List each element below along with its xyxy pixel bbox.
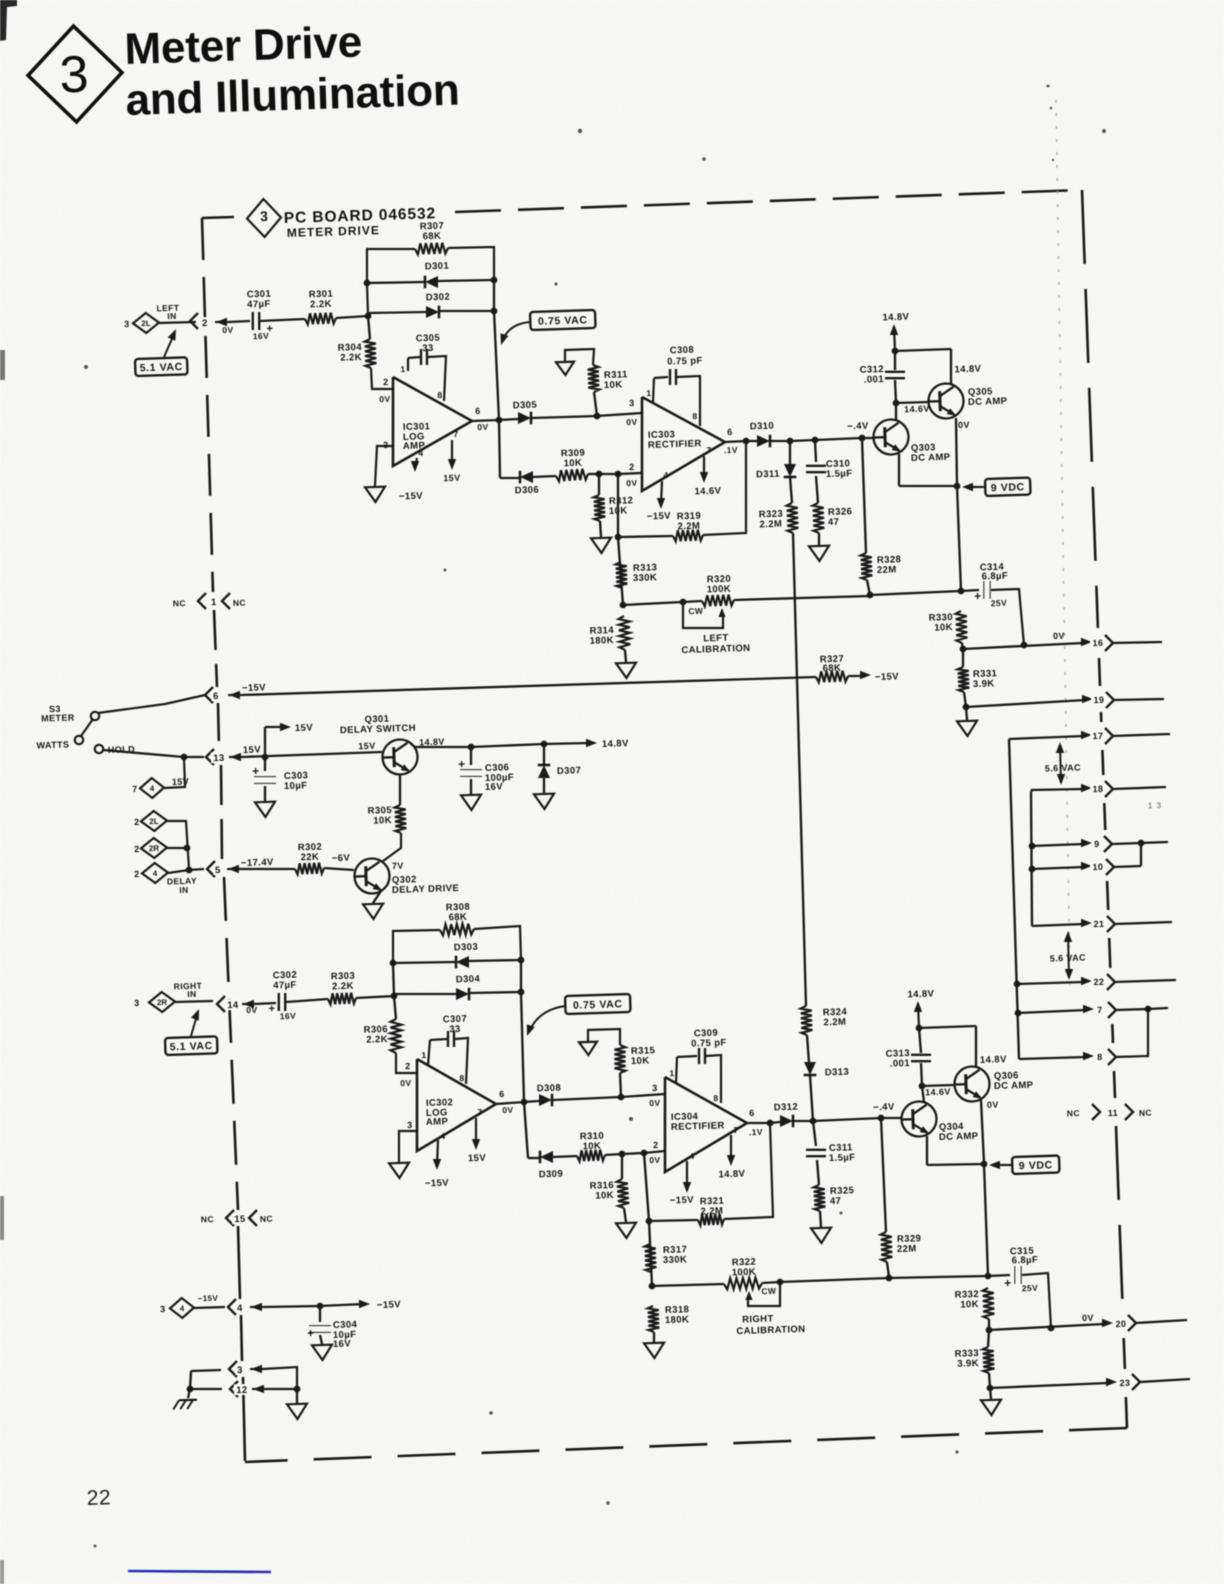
- wire: [618, 536, 673, 537]
- R301 labels: [309, 289, 334, 301]
- svg-text:3: 3: [160, 1304, 166, 1314]
- wire: [644, 1151, 665, 1153]
- diode D304: [456, 988, 469, 1001]
- node RIGHT IN label: [174, 981, 203, 992]
- wire: [703, 441, 746, 535]
- svg-text:14.8V: 14.8V: [954, 364, 981, 376]
- svg-text:0V: 0V: [649, 1098, 661, 1108]
- diode D307: [538, 765, 551, 778]
- transistor Q306: [954, 1066, 990, 1103]
- R331 labels: [973, 668, 998, 680]
- svg-text:−15V: −15V: [647, 511, 672, 523]
- wire: [895, 349, 951, 351]
- junction: [184, 845, 191, 852]
- svg-text:CW: CW: [688, 606, 704, 616]
- svg-text:68K: 68K: [448, 912, 467, 924]
- junction: [986, 1327, 993, 1334]
- wire: [500, 477, 519, 479]
- svg-text:68K: 68K: [822, 663, 841, 675]
- junction: [954, 483, 961, 490]
- op-amp IC303 RECTIFIER: [642, 397, 725, 491]
- R332 labels: [954, 1289, 979, 1301]
- junction: [317, 1303, 324, 1310]
- connector 2L (delay): [141, 811, 168, 832]
- svg-text:0.75 pF: 0.75 pF: [691, 1037, 727, 1049]
- pin 1 connector NC: [173, 598, 186, 608]
- wire: [899, 485, 957, 487]
- wire: [617, 474, 619, 537]
- pin 7 connector: [1083, 1005, 1094, 1013]
- wire: [961, 590, 979, 591]
- R330 labels: [928, 612, 953, 624]
- wire: [469, 960, 521, 961]
- ground: [363, 904, 383, 920]
- svg-text:2: 2: [202, 318, 208, 329]
- scan crease dotted line: [1056, 100, 1070, 985]
- svg-text:+: +: [252, 764, 260, 778]
- pin 2 connector: [190, 313, 198, 329]
- svg-text:6: 6: [475, 406, 481, 416]
- svg-text:3: 3: [124, 319, 130, 329]
- R306 labels: [363, 1024, 388, 1036]
- IC303 labels: [648, 429, 676, 441]
- svg-text:3.9K: 3.9K: [957, 1358, 979, 1370]
- R318 labels: [665, 1304, 690, 1316]
- resistor R323: [787, 503, 799, 533]
- Q303 labels: [911, 442, 936, 454]
- label 0V emitter Q305: [958, 420, 970, 430]
- wire: [956, 418, 957, 486]
- C313 labels: [885, 1048, 910, 1060]
- svg-text:7V: 7V: [392, 861, 404, 871]
- svg-text:14.8V: 14.8V: [419, 737, 445, 748]
- wire: [1032, 924, 1084, 926]
- resistor R303: [328, 993, 356, 1005]
- svg-text:6: 6: [499, 1089, 505, 1099]
- boxed label 9 VDC right: [1012, 1156, 1060, 1174]
- capacitor C310: [806, 466, 826, 472]
- Q304 labels: [939, 1121, 964, 1133]
- pc board border top-left segment: [202, 217, 234, 218]
- ground: [365, 487, 385, 503]
- wire: [240, 868, 295, 870]
- IC302 pin 4 stub: [437, 1140, 438, 1166]
- wire: [621, 1154, 623, 1179]
- R324 labels: [823, 1007, 848, 1019]
- diode D309: [540, 1151, 553, 1164]
- wire: [1116, 1009, 1148, 1057]
- boxed label 0.75 VAC left: [530, 310, 596, 330]
- capacitor C311: [806, 1150, 826, 1156]
- wire: [622, 1153, 644, 1154]
- junction: [767, 1120, 774, 1127]
- junction: [615, 534, 622, 541]
- svg-text:2.2K: 2.2K: [340, 352, 362, 364]
- junction: [1029, 866, 1036, 873]
- wire: [748, 1282, 780, 1306]
- wire: [264, 727, 266, 757]
- wire: [588, 1029, 620, 1045]
- svg-text:−6V: −6V: [332, 853, 351, 865]
- svg-text:20: 20: [1115, 1319, 1126, 1329]
- svg-text:3.9K: 3.9K: [973, 678, 995, 690]
- capacitor C301: [253, 312, 259, 330]
- wire: [520, 960, 522, 992]
- pin 16 connector: [1081, 638, 1092, 646]
- resistor R330: [956, 611, 968, 643]
- wire: [438, 280, 494, 281]
- wire: [649, 1221, 652, 1286]
- svg-text:10: 10: [1092, 862, 1103, 872]
- border diamond 3: [246, 198, 281, 237]
- svg-text:4: 4: [418, 448, 423, 458]
- svg-text:D302: D302: [426, 292, 451, 304]
- svg-text:14: 14: [227, 1000, 239, 1011]
- junction: [886, 1275, 893, 1282]
- svg-text:.001: .001: [890, 1058, 911, 1070]
- boxed label 0.75 VAC right: [565, 994, 631, 1014]
- wire: [1140, 1379, 1190, 1382]
- wire: [521, 992, 524, 1102]
- svg-text:16V: 16V: [253, 331, 270, 342]
- wire: [618, 537, 623, 605]
- svg-text:2L: 2L: [141, 319, 151, 328]
- svg-text:3: 3: [629, 398, 635, 408]
- IC304 labels: [671, 1111, 699, 1123]
- svg-text:2: 2: [134, 817, 140, 827]
- capacitor C309: [699, 1048, 705, 1064]
- wire: [533, 476, 556, 477]
- wire: [175, 1001, 213, 1002]
- svg-text:0V: 0V: [379, 394, 391, 404]
- wire: [677, 1056, 697, 1057]
- wire: [1022, 1273, 1051, 1328]
- D304 label: [456, 974, 481, 986]
- IC303 pin 4 stub: [661, 481, 662, 505]
- wire: [599, 473, 618, 475]
- wire: [770, 1122, 780, 1123]
- wire: [887, 1262, 889, 1277]
- svg-text:0.75 VAC: 0.75 VAC: [538, 314, 588, 328]
- svg-text:METER DRIVE: METER DRIVE: [287, 223, 380, 240]
- wire: [393, 963, 394, 996]
- R322 labels: [732, 1257, 757, 1269]
- DELAY IN label: [167, 876, 197, 887]
- resistor R311: [588, 365, 600, 392]
- svg-text:22K: 22K: [300, 852, 319, 864]
- diode D310: [757, 435, 770, 448]
- junction: [181, 754, 188, 761]
- junction: [365, 313, 372, 320]
- svg-text:33: 33: [449, 1024, 461, 1035]
- diode D302: [426, 306, 439, 319]
- svg-text:6.8µF: 6.8µF: [1012, 1255, 1039, 1267]
- wire: [889, 1276, 988, 1278]
- junction: [641, 1150, 648, 1157]
- capacitor C307: [448, 1031, 454, 1047]
- R304 labels: [337, 342, 362, 354]
- arrow to -15V: [848, 675, 864, 677]
- junction: [1048, 1325, 1055, 1332]
- D302 label: [426, 292, 451, 304]
- svg-text:15V: 15V: [358, 741, 376, 752]
- wire: [368, 316, 370, 339]
- label 14.6V: [904, 404, 930, 415]
- junction: [518, 957, 525, 964]
- wire: [394, 993, 456, 995]
- svg-text:16: 16: [1092, 638, 1103, 648]
- label 14.8V: [419, 737, 445, 748]
- svg-text:23: 23: [1119, 1378, 1130, 1388]
- D306 label: [515, 485, 540, 497]
- wire: [164, 758, 185, 788]
- wire: [159, 322, 196, 323]
- svg-text:6: 6: [749, 1108, 755, 1118]
- svg-text:1.5µF: 1.5µF: [829, 1152, 856, 1164]
- wire: [981, 1100, 984, 1163]
- wire: [396, 1053, 417, 1073]
- connector 2R (delay): [141, 838, 168, 859]
- wire: [652, 1284, 724, 1286]
- IC301 pin 2 label: [383, 377, 389, 387]
- wire: [625, 650, 626, 662]
- svg-text:C308: C308: [670, 345, 695, 357]
- wire: [653, 1332, 655, 1342]
- D310 label: [750, 421, 775, 433]
- pin 10 connector: [1081, 862, 1092, 870]
- junction: [987, 1385, 994, 1392]
- svg-text:1 3: 1 3: [1148, 801, 1162, 810]
- junction: [1021, 642, 1028, 649]
- svg-text:2.2K: 2.2K: [310, 299, 332, 311]
- wire: [989, 1373, 990, 1388]
- wire: [470, 992, 521, 993]
- wire: [989, 1324, 1104, 1330]
- svg-text:22: 22: [1093, 977, 1104, 987]
- svg-text:2: 2: [134, 844, 140, 854]
- svg-text:15: 15: [234, 1214, 246, 1225]
- wire: [1113, 642, 1162, 643]
- svg-text:D311: D311: [756, 469, 780, 481]
- wire: [600, 521, 601, 537]
- wire: [553, 1097, 621, 1100]
- resistor R318: [648, 1306, 660, 1332]
- wire: [605, 1154, 622, 1155]
- junction: [491, 277, 498, 284]
- svg-text:3: 3: [260, 208, 268, 224]
- wire: [167, 847, 187, 849]
- svg-text:0V: 0V: [246, 1005, 258, 1015]
- svg-text:DELAY DRIVE: DELAY DRIVE: [392, 883, 460, 896]
- svg-text:CALIBRATION: CALIBRATION: [736, 1324, 805, 1337]
- wire: [881, 1118, 886, 1232]
- svg-text:0V: 0V: [477, 422, 489, 432]
- R307 labels: [420, 221, 445, 233]
- wire: [496, 1102, 524, 1104]
- svg-text:18: 18: [1092, 784, 1103, 794]
- svg-text:1: 1: [400, 364, 405, 374]
- IC303 pin 2 label: [629, 462, 635, 472]
- IC302 pin 3: [407, 1120, 413, 1130]
- IC303 pin 3 label: [629, 398, 635, 408]
- wire: [991, 589, 1024, 645]
- wire: [440, 310, 494, 312]
- svg-text:2.2M: 2.2M: [823, 1017, 846, 1029]
- svg-text:8: 8: [713, 1093, 718, 1103]
- svg-text:−15V: −15V: [670, 1195, 695, 1207]
- Q306 labels: [994, 1070, 1019, 1082]
- svg-text:14.6V: 14.6V: [904, 404, 930, 415]
- wire: [324, 868, 354, 870]
- svg-text:16V: 16V: [485, 781, 504, 793]
- junction: [391, 993, 398, 1000]
- svg-text:IN: IN: [179, 885, 189, 895]
- R333 labels: [954, 1348, 979, 1360]
- boxed label 5.1 VAC: [135, 357, 188, 376]
- wire: [990, 1383, 1108, 1388]
- wire: [1136, 1320, 1187, 1323]
- wire: [1019, 1057, 1086, 1059]
- junction: [618, 1094, 625, 1101]
- svg-text:0V: 0V: [502, 1105, 514, 1115]
- wire: [319, 1306, 321, 1322]
- wire: [320, 1335, 322, 1344]
- wire: [383, 833, 401, 861]
- svg-text:3: 3: [237, 1365, 243, 1376]
- wire: [895, 380, 896, 403]
- IC301 pin 7 stub: [451, 440, 453, 466]
- ground: [534, 794, 554, 810]
- svg-text:+: +: [974, 589, 982, 603]
- resistor R306: [391, 1019, 402, 1053]
- svg-text:3: 3: [652, 1083, 658, 1093]
- svg-text:21: 21: [1093, 919, 1104, 929]
- wire: [254, 1003, 276, 1004]
- wire: [706, 1055, 721, 1103]
- ground: [981, 1400, 1001, 1416]
- svg-text:15V: 15V: [172, 776, 190, 787]
- svg-text:10K: 10K: [631, 1055, 650, 1067]
- D301 label: [425, 261, 450, 273]
- svg-text:5: 5: [215, 865, 221, 876]
- wire: [594, 392, 597, 416]
- resistor R325: [814, 1185, 826, 1211]
- wire: [168, 870, 189, 873]
- D312 label: [774, 1102, 799, 1114]
- capacitor C308: [670, 369, 676, 385]
- wire: [747, 1122, 770, 1124]
- IC303 pin 1 stub: [653, 378, 654, 403]
- pin 19 connector: [1082, 695, 1093, 703]
- wire: [399, 775, 401, 805]
- wire: [264, 1306, 320, 1307]
- junction: [963, 704, 970, 711]
- label -.4V right: [873, 1102, 895, 1114]
- pin 22 connector: [1081, 977, 1092, 985]
- transistor Q301: [382, 739, 418, 776]
- svg-text:47: 47: [828, 517, 840, 528]
- resistor R305: [395, 805, 407, 833]
- boxed label 9 VDC: [985, 478, 1031, 496]
- wire: [962, 649, 964, 667]
- svg-text:NC: NC: [1139, 1108, 1152, 1118]
- svg-text:25V: 25V: [1022, 1283, 1039, 1294]
- junction: [777, 1279, 784, 1286]
- wire: [263, 1367, 297, 1389]
- pin 12 connector: [230, 1381, 238, 1397]
- label 14.8V arrow: [602, 738, 629, 750]
- svg-text:−15V: −15V: [242, 682, 267, 694]
- junction: [787, 438, 794, 445]
- R326 labels: [828, 506, 853, 518]
- label 14.8V collector Q306: [979, 1053, 1015, 1066]
- ground: [616, 663, 636, 679]
- wire: [264, 786, 266, 801]
- capacitor C303: [254, 777, 276, 784]
- wire: [1114, 866, 1141, 867]
- junction: [981, 1161, 988, 1168]
- svg-text:2.2M: 2.2M: [700, 1206, 723, 1218]
- wire: [470, 779, 472, 794]
- pc board label: [284, 205, 437, 227]
- diode D312: [780, 1115, 793, 1128]
- pin 23 connector: [1106, 1378, 1117, 1386]
- junction: [496, 417, 503, 424]
- wire: [771, 440, 790, 442]
- capacitor C304: [309, 1326, 331, 1333]
- wire: [524, 1102, 528, 1158]
- wire: [103, 750, 184, 757]
- wire: [816, 476, 818, 503]
- R308 labels: [446, 902, 471, 914]
- boxed label 5.1 VAC right: [165, 1036, 218, 1055]
- svg-text:D310: D310: [750, 421, 775, 433]
- wire: [894, 351, 896, 370]
- title text: [124, 18, 363, 74]
- resistor R326: [813, 503, 825, 533]
- wire: [430, 1039, 447, 1040]
- D313 label: [825, 1067, 850, 1079]
- wire: [543, 778, 545, 793]
- svg-text:RECTIFIER: RECTIFIER: [671, 1120, 725, 1133]
- svg-text:CALIBRATION: CALIBRATION: [681, 643, 750, 656]
- svg-text:5.1 VAC: 5.1 VAC: [140, 361, 183, 374]
- wire: [371, 368, 393, 389]
- wire: [623, 602, 683, 605]
- wire: [598, 474, 600, 495]
- 5.6 VAC arrows bottom: [1068, 934, 1069, 977]
- ground flag: [556, 362, 574, 376]
- wire: [399, 1131, 417, 1162]
- junction: [594, 413, 601, 420]
- pin 15 connector NC: [201, 1214, 214, 1224]
- junction: [1029, 843, 1036, 850]
- junction: [596, 471, 603, 478]
- junction: [1138, 840, 1145, 847]
- transistor Q304: [901, 1101, 937, 1138]
- junction: [893, 400, 900, 407]
- ground: [287, 1404, 307, 1420]
- pin 8 connector: [1083, 1052, 1094, 1060]
- diode D305: [518, 412, 531, 425]
- resistor R320: [702, 595, 734, 607]
- resistor R333: [983, 1347, 995, 1373]
- svg-text:33: 33: [422, 343, 434, 354]
- svg-text:+: +: [268, 1003, 275, 1015]
- svg-text:D301: D301: [425, 261, 450, 273]
- junction: [1014, 981, 1021, 988]
- 5.6 VAC arrows top: [1060, 745, 1061, 782]
